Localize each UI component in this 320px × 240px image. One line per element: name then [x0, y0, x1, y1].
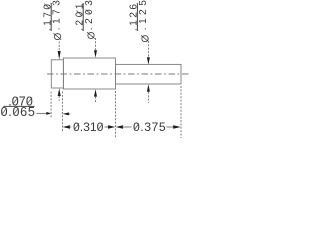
- svg-text:Ø: Ø: [87, 31, 98, 39]
- dimension .170/0.173 leader and arrows: [58, 42, 61, 101]
- svg-text:Ø: Ø: [141, 35, 152, 43]
- shaft small left step: [51, 60, 63, 88]
- svg-text:Ø: Ø: [53, 33, 64, 41]
- dimension .170/0.173 text: [42, 0, 64, 41]
- shaft right section: [116, 64, 182, 84]
- svg-text:0.375: 0.375: [133, 120, 166, 134]
- dimension .126/0.125 text: [129, 0, 152, 43]
- dimension 0.310: [63, 120, 116, 134]
- svg-text:0.310: 0.310: [73, 120, 104, 134]
- extension line below right end: [180, 86, 182, 138]
- extension line below middle/right shoulder: [115, 91, 117, 138]
- slashed zero marks: [2, 4, 139, 131]
- dimension .126/0.125 leader and arrows: [147, 38, 150, 104]
- dimension .201/0.203 leader and arrows: [94, 38, 97, 103]
- extension line below step face: [61, 92, 63, 132]
- dimension .201/0.203 text: [74, 0, 97, 39]
- shaft middle section: [63, 58, 115, 89]
- centerline: [47, 73, 191, 75]
- svg-text:0.065: 0.065: [1, 105, 35, 119]
- dimension .070/0.065 leader and arrows: [37, 112, 71, 116]
- dimension .070/0.065 text: [1, 94, 35, 119]
- dimension 0.375: [116, 120, 181, 134]
- extension line below left edge of step: [50, 92, 52, 118]
